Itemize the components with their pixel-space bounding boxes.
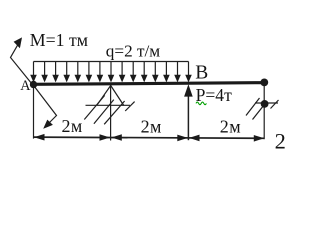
svg-text:2м: 2м	[62, 116, 83, 136]
svg-text:М=1 тм: М=1 тм	[30, 30, 88, 50]
svg-text:2м: 2м	[220, 117, 241, 137]
svg-text:А: А	[20, 78, 31, 94]
svg-text:В: В	[195, 63, 208, 84]
svg-text:2: 2	[275, 128, 286, 153]
svg-text:2м: 2м	[141, 116, 162, 136]
svg-text:Р=4т: Р=4т	[196, 85, 233, 105]
svg-text:q=2 т/м: q=2 т/м	[106, 41, 160, 60]
